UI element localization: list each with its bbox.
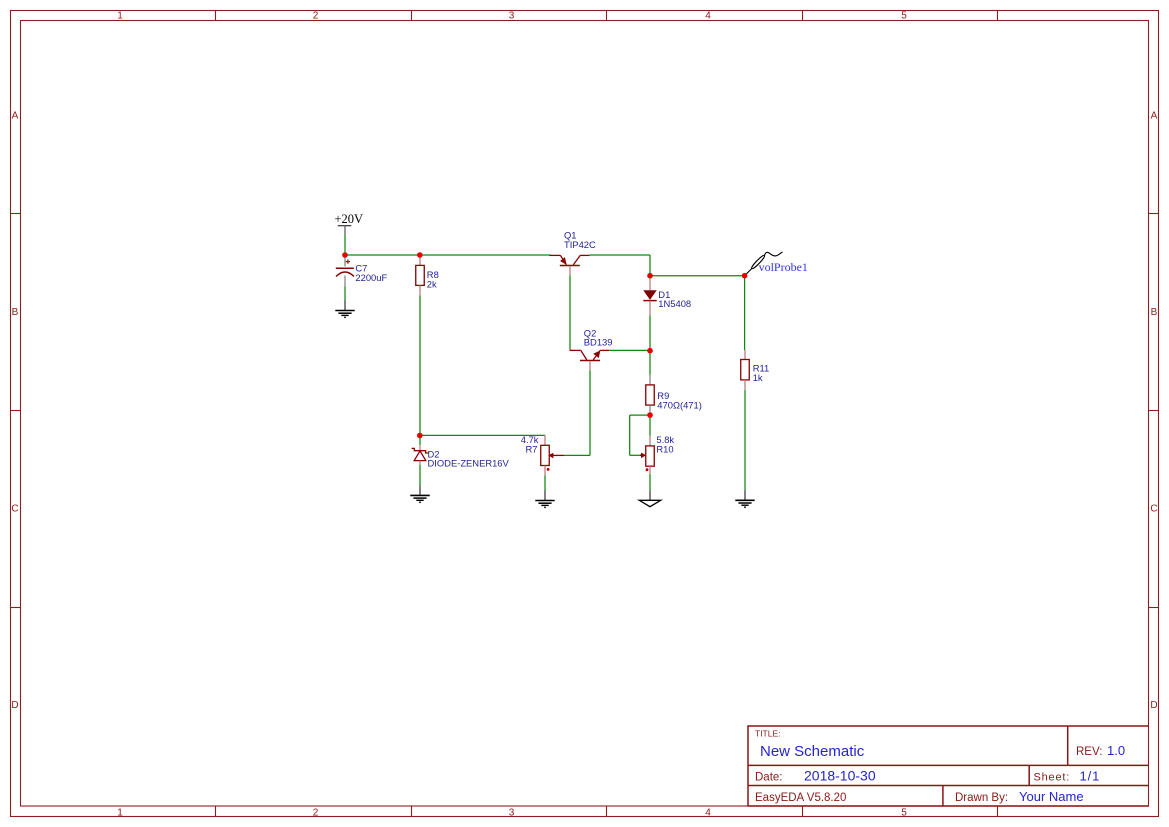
svg-text:TIP42C: TIP42C xyxy=(564,239,596,250)
svg-text:R7: R7 xyxy=(526,443,538,454)
svg-text:1/1: 1/1 xyxy=(1080,768,1101,783)
svg-text:REV:: REV: xyxy=(1076,746,1102,758)
svg-text:4: 4 xyxy=(705,808,711,819)
svg-text:Date:: Date: xyxy=(755,771,783,783)
svg-text:2k: 2k xyxy=(427,278,437,289)
svg-text:1: 1 xyxy=(117,808,123,819)
svg-text:A: A xyxy=(12,111,19,122)
svg-text:3: 3 xyxy=(509,808,515,819)
svg-text:B: B xyxy=(1151,307,1158,318)
svg-text:EasyEDA V5.8.20: EasyEDA V5.8.20 xyxy=(755,792,846,804)
svg-text:C: C xyxy=(11,504,18,515)
svg-text:Your Name: Your Name xyxy=(1019,789,1084,804)
svg-text:3: 3 xyxy=(509,11,515,22)
svg-text:TITLE:: TITLE: xyxy=(755,728,781,738)
svg-text:Sheet:: Sheet: xyxy=(1034,771,1071,783)
svg-text:C: C xyxy=(1150,504,1157,515)
svg-text:D: D xyxy=(11,700,18,711)
svg-text:2200uF: 2200uF xyxy=(355,272,387,283)
svg-text:2018-10-30: 2018-10-30 xyxy=(804,768,876,784)
svg-text:1k: 1k xyxy=(753,372,763,383)
svg-text:1: 1 xyxy=(117,11,123,22)
svg-text:B: B xyxy=(12,307,19,318)
svg-text:volProbe1: volProbe1 xyxy=(759,260,808,274)
svg-text:DIODE-ZENER16V: DIODE-ZENER16V xyxy=(428,458,510,469)
svg-text:2: 2 xyxy=(313,11,319,22)
svg-text:New Schematic: New Schematic xyxy=(760,743,865,760)
svg-text:470Ω(471): 470Ω(471) xyxy=(657,399,702,410)
svg-text:R10: R10 xyxy=(656,444,673,455)
svg-text:1N5408: 1N5408 xyxy=(658,298,691,309)
svg-text:4: 4 xyxy=(705,11,711,22)
svg-text:A: A xyxy=(1151,111,1158,122)
svg-text:5: 5 xyxy=(901,808,907,819)
svg-text:D: D xyxy=(1150,700,1157,711)
svg-text:2: 2 xyxy=(313,808,319,819)
svg-text:5: 5 xyxy=(901,11,907,22)
svg-text:1.0: 1.0 xyxy=(1107,743,1125,758)
svg-text:+20V: +20V xyxy=(335,212,364,226)
svg-text:BD139: BD139 xyxy=(584,337,613,348)
svg-text:Drawn By:: Drawn By: xyxy=(955,792,1008,804)
